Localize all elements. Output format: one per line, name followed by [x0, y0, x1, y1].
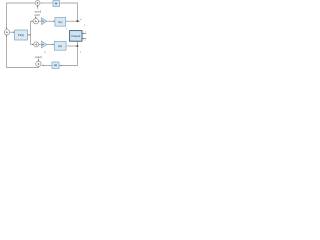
svg-text:Output: Output	[71, 34, 80, 38]
svg-text:f(s): f(s)	[58, 20, 62, 24]
svg-text:2: 2	[85, 40, 87, 42]
svg-text:2: 2	[80, 52, 82, 54]
svg-text:K: K	[45, 52, 47, 54]
svg-text:2: 2	[84, 25, 86, 27]
svg-text:i(ref): i(ref)	[34, 13, 39, 17]
svg-text:w: w	[80, 19, 82, 21]
svg-text:1: 1	[66, 28, 68, 30]
svg-text:w(act): w(act)	[35, 55, 42, 59]
svg-text:f(s): f(s)	[58, 44, 62, 48]
svg-text:PI(s): PI(s)	[18, 33, 24, 37]
